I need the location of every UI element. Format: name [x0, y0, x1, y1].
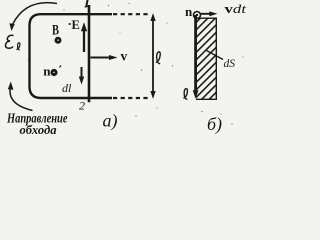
scan specks — [28, 3, 244, 125]
svg-text:а): а) — [103, 111, 118, 132]
vector dl arrow (down along rod) — [81, 67, 83, 78]
hatched strip dS swept by rod — [196, 18, 216, 100]
label EMF script E with subscript l — [5, 35, 19, 50]
svg-text:B: B — [52, 23, 59, 39]
curved arrow: traversal direction (bottom-left) — [10, 88, 32, 111]
vector v arrow (velocity of rod) — [91, 57, 112, 59]
n direction symbol (dot circle) — [50, 69, 57, 76]
label l (script ell) on dimension line — [156, 52, 160, 64]
svg-text:обхода: обхода — [20, 123, 57, 137]
svg-text:n: n — [185, 4, 193, 19]
vector v dt arrow (displacement) — [201, 13, 212, 15]
svg-text:2: 2 — [79, 99, 85, 113]
label l (script ell, part b) — [183, 89, 187, 100]
B direction symbol (dot circle) — [55, 37, 62, 44]
label node 1 — [86, 0, 87, 6]
svg-text:E: E — [72, 18, 80, 32]
curved arrow: EMF circulation direction (top-left) — [13, 3, 57, 24]
vector E arrow — [83, 29, 85, 52]
wire: dashed continuation of top rail — [113, 13, 150, 15]
svg-text:dS: dS — [224, 58, 236, 70]
rod 1-2 (movable jumper) — [88, 5, 91, 102]
svg-text:v: v — [121, 49, 128, 64]
wire: contour a) rounded left loop (left conductor, top and bottom rails) — [30, 14, 113, 98]
vector l arrow (rod, pointing down) left edge of strip — [194, 15, 197, 92]
svg-text:vdt: vdt — [225, 2, 247, 16]
dimension line l (length of rod) with end arrows — [152, 19, 154, 93]
pointer line for dS — [207, 51, 224, 60]
svg-text:n: n — [43, 64, 51, 79]
svg-text:б): б) — [207, 114, 222, 135]
wire: dashed continuation of bottom rail — [113, 97, 150, 99]
svg-text:dl: dl — [62, 81, 72, 95]
label E with leading dash — [69, 23, 72, 25]
